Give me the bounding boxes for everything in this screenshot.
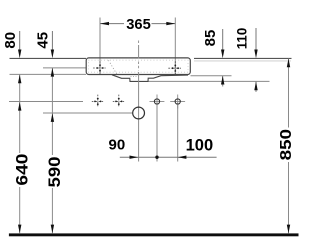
svg-text:45: 45: [34, 32, 51, 49]
svg-text:640: 640: [13, 154, 32, 186]
svg-text:100: 100: [186, 137, 214, 155]
svg-text:90: 90: [109, 137, 126, 154]
svg-text:590: 590: [45, 157, 64, 188]
svg-text:365: 365: [126, 17, 151, 33]
svg-text:110: 110: [233, 28, 249, 50]
svg-text:80: 80: [2, 32, 19, 49]
svg-text:850: 850: [278, 129, 295, 161]
svg-text:85: 85: [202, 30, 219, 47]
